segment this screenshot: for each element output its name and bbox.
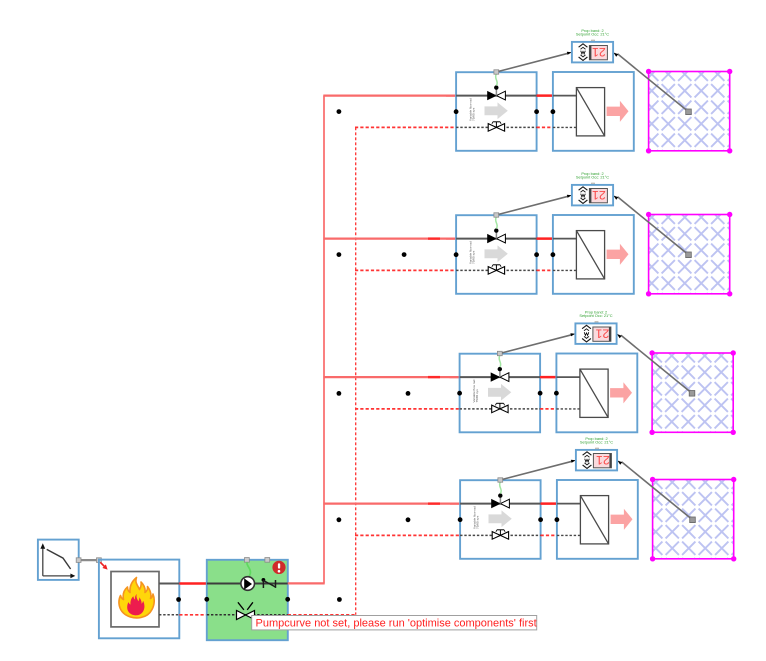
pump box (selected, green) [207,560,288,640]
connector squares on pump box [245,558,250,563]
node dots branch4 [337,517,342,522]
return pipe pump box to riser [288,614,357,616]
node dots production [176,597,181,602]
node dot branch1 [337,109,342,114]
connector square B [97,558,102,563]
supply pipe boiler to pump box [179,582,208,584]
branch 1 return pipe [355,126,457,128]
supply pipe pump box to riser [288,582,325,584]
branch 2 supply pipe [323,238,457,240]
branch 3 supply pipe [323,376,460,378]
display edge branch2 [589,189,591,203]
error badge [272,561,285,574]
bright segment branch2 supply [428,237,440,239]
branch 4 supply pipe [323,503,461,505]
pump P1 [241,577,255,591]
tooltip [252,616,537,630]
display edge branch3 [609,327,611,341]
bright segment branch4 supply [428,502,440,504]
boiler box [99,560,179,639]
branch 2 return pipe [355,269,457,271]
display edge branch4 [609,454,611,468]
node dots branch3 [337,391,342,396]
svg-text:Pumpcurve not set, please run: Pumpcurve not set, please run 'optimise … [256,618,537,630]
check valve [262,578,276,588]
boiler body [111,572,159,627]
branch 4 return pipe [355,534,461,536]
boiler return stub [159,614,179,616]
node dots branch2 [337,252,342,257]
heat curve line [47,549,71,569]
controller link wire [79,559,99,561]
supply riser [323,96,325,584]
return riser (dashed) [355,127,357,614]
heat curve box [38,540,79,580]
pump box control valve [237,602,255,619]
pump signal wire [247,562,251,576]
red link arrow [100,562,107,569]
return line in pump box [207,614,288,616]
display edge branch1 [589,46,591,60]
heat curve axes [40,543,75,578]
boiler supply stub [159,583,179,585]
branch 1 supply pipe [323,94,457,96]
bright segment branch3 supply [428,376,440,378]
flame [119,578,154,618]
connector square A [76,558,81,563]
supply line in pump box [207,583,288,585]
return pipe boiler to pump box [179,614,208,616]
branch 3 return pipe [355,408,461,410]
